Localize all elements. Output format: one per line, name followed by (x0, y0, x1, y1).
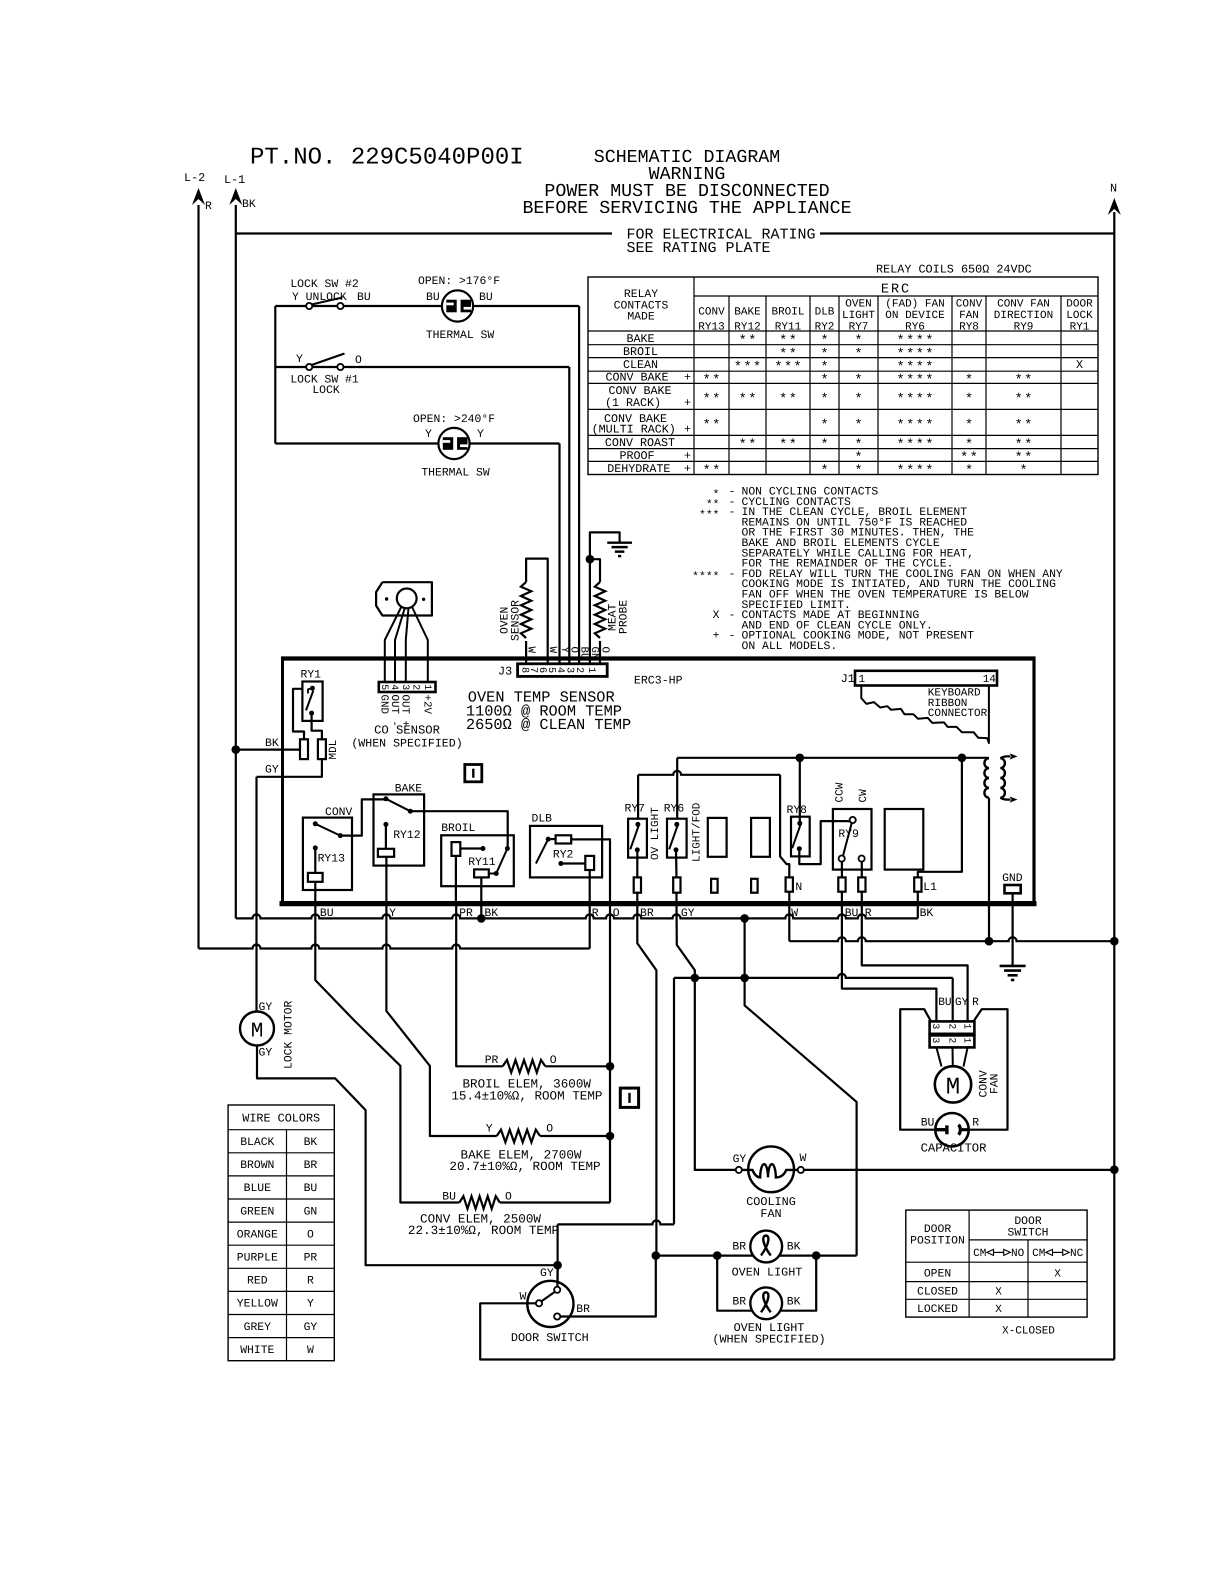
relay RY7 oven light (628, 819, 647, 858)
wire door sw GY up (556, 1265, 558, 1287)
cooling fan (748, 1146, 794, 1192)
svg-text:RY8: RY8 (787, 805, 808, 817)
svg-text:*: * (965, 464, 973, 479)
relay RY2 DLB (530, 826, 602, 878)
svg-text:DOOR: DOOR (1014, 1216, 1042, 1228)
svg-text:+: + (684, 462, 691, 476)
conv fan feed bus (674, 974, 953, 978)
svg-text:BU: BU (479, 292, 493, 304)
svg-text:*: * (906, 438, 914, 453)
svg-text:*: * (1024, 393, 1032, 408)
junction O / bake elem (606, 1132, 615, 1141)
svg-text:CAPACITOR: CAPACITOR (921, 1142, 987, 1156)
CO sensor lens (397, 589, 417, 609)
svg-text:O: O (598, 647, 610, 653)
wire line3 (W to N) (789, 937, 1114, 941)
RY9 contact BU (839, 856, 845, 862)
relay RY13 CONV (303, 818, 352, 890)
pin BK (RY1) (300, 739, 308, 759)
svg-text:2: 2 (946, 1023, 957, 1029)
svg-text:*: * (925, 419, 933, 434)
svg-text:GY: GY (265, 765, 279, 777)
junction meat probe / ground (586, 555, 595, 564)
svg-text:GY: GY (955, 997, 969, 1009)
wire O drop to J3 pin4 (568, 367, 570, 664)
svg-text:BU: BU (442, 1192, 456, 1204)
oven light 2 (750, 1287, 782, 1319)
svg-text:X: X (995, 1304, 1002, 1316)
svg-text:BROIL: BROIL (623, 345, 658, 359)
svg-text:*: * (854, 374, 862, 389)
wire BU to conv element (315, 882, 459, 1203)
svg-text:DOOR SWITCH: DOOR SWITCH (511, 1331, 589, 1345)
svg-text:BU: BU (921, 1118, 935, 1130)
transformer secondary (1000, 758, 1005, 798)
svg-text:CONV: CONV (325, 807, 353, 819)
wire GY to lock motor (255, 777, 257, 1012)
svg-text:OPEN: >176°F: OPEN: >176°F (418, 276, 500, 288)
svg-text:GN: GN (304, 1206, 318, 1218)
svg-text:OVEN: OVEN (845, 299, 871, 311)
svg-text:BAKE: BAKE (734, 307, 761, 319)
svg-text:*: * (712, 374, 720, 389)
svg-text:*: * (925, 393, 933, 408)
svg-text:GY: GY (304, 1322, 318, 1334)
svg-text:O: O (546, 1124, 553, 1136)
svg-text:LOCK: LOCK (312, 385, 340, 397)
svg-text:(1 RACK): (1 RACK) (605, 396, 661, 410)
svg-text:BROIL: BROIL (441, 823, 475, 835)
conv element resistor (459, 1196, 499, 1209)
svg-text:-: - (729, 610, 736, 622)
svg-text:BU: BU (357, 292, 371, 304)
svg-text:FAN: FAN (959, 310, 979, 322)
svg-text:*: * (906, 419, 914, 434)
svg-text:GREEN: GREEN (240, 1206, 274, 1218)
pin BR (634, 877, 641, 892)
door switch (527, 1281, 573, 1327)
svg-text:-: - (729, 507, 736, 519)
svg-text:*: * (794, 361, 802, 376)
wire lock motor to door switch GY node (257, 1046, 558, 1266)
junction branch / fan bus (740, 974, 749, 983)
svg-text:ON DEVICE: ON DEVICE (885, 310, 945, 322)
svg-text:*: * (916, 464, 924, 479)
svg-text:3: 3 (930, 1023, 941, 1029)
svg-text:OPEN: OPEN (924, 1269, 951, 1281)
junction O / broil elem (606, 1062, 615, 1071)
svg-text:X-CLOSED: X-CLOSED (1002, 1326, 1055, 1338)
svg-text:*: * (734, 361, 742, 376)
relay RY11 BROIL (441, 835, 514, 886)
wire lock sw 2 row (275, 305, 442, 307)
wire line1 (L-1 rail) (236, 914, 918, 918)
svg-text:THERMAL SW: THERMAL SW (426, 330, 495, 342)
svg-text:RY6: RY6 (905, 321, 925, 333)
svg-text:*: * (897, 464, 905, 479)
svg-text:RY12: RY12 (393, 830, 421, 842)
RY2 coil (556, 835, 572, 843)
svg-text:*: * (789, 438, 797, 453)
wire branch line1 to fan bus (745, 918, 857, 1255)
svg-text:O: O (307, 1229, 314, 1241)
svg-text:****: **** (692, 571, 719, 584)
CO sensor screw left (385, 597, 388, 600)
svg-text:*: * (906, 374, 914, 389)
svg-text:BU: BU (938, 997, 951, 1009)
junction BK / L-1 rail (477, 914, 486, 923)
wire BR to oven light (637, 904, 656, 1256)
junction lamp2 left (713, 1251, 722, 1260)
wire R pin down to line2 (589, 904, 591, 949)
svg-text:*: * (854, 347, 862, 362)
svg-text:M: M (946, 1075, 960, 1102)
svg-text:OPEN: >240°F: OPEN: >240°F (413, 414, 495, 426)
RY9 blade (843, 823, 852, 856)
svg-text:PR: PR (485, 1055, 499, 1067)
svg-text:Y: Y (296, 354, 303, 366)
pin BU (RY9) (838, 877, 845, 891)
svg-text:+: + (713, 631, 720, 643)
svg-text:*: * (916, 374, 924, 389)
wire line2 (L-2 rail to R) (199, 945, 590, 949)
svg-text:R: R (307, 1276, 314, 1288)
svg-text:DIRECTION: DIRECTION (994, 310, 1053, 322)
svg-text:W: W (307, 1345, 314, 1357)
RY2 blade (536, 839, 548, 863)
svg-text:O: O (355, 355, 362, 367)
lock switch #2 (306, 303, 312, 309)
oven light 1 (750, 1231, 782, 1263)
svg-text:ERC3-HP: ERC3-HP (634, 675, 683, 688)
broil element resistor (503, 1060, 546, 1073)
svg-text:WHITE: WHITE (240, 1345, 274, 1357)
svg-text:Y: Y (486, 1124, 493, 1136)
node lock switch rail (274, 306, 276, 444)
wire thermal sw 240 row (275, 442, 438, 444)
svg-text:Y: Y (425, 429, 432, 441)
svg-text:DLB: DLB (815, 307, 835, 319)
svg-text:X: X (713, 610, 720, 622)
svg-text:BROWN: BROWN (240, 1160, 274, 1172)
svg-text:BEFORE SERVICING THE APPLIANCE: BEFORE SERVICING THE APPLIANCE (522, 199, 851, 219)
svg-text:*: * (703, 374, 711, 389)
pin spare 2 (751, 879, 758, 893)
junction bus / RY8 (796, 754, 805, 763)
svg-text:PR: PR (304, 1253, 318, 1265)
svg-text:20.7±10%Ω, ROOM TEMP: 20.7±10%Ω, ROOM TEMP (449, 1160, 600, 1174)
svg-text:*: * (1024, 374, 1032, 389)
RY13 blade (315, 824, 340, 836)
svg-text:Y: Y (477, 429, 484, 441)
relay RY8 conv fan (791, 817, 810, 857)
svg-text:***: *** (699, 509, 720, 522)
spare relay block 1 (708, 818, 727, 857)
wire rating note to N (820, 232, 1114, 234)
svg-text:OUT +: OUT + (399, 695, 411, 727)
svg-text:*: * (916, 419, 924, 434)
svg-text:CONV: CONV (956, 299, 983, 311)
wire PR to broil element (456, 904, 503, 1067)
RY6 blade (669, 826, 677, 849)
svg-text:J3: J3 (498, 665, 512, 679)
svg-text:O: O (505, 1192, 512, 1204)
svg-text:R: R (205, 201, 212, 213)
svg-text:RY11: RY11 (775, 321, 802, 333)
svg-text:N: N (1110, 182, 1117, 196)
transformer primary (984, 758, 989, 798)
RY11 contact block (474, 869, 489, 877)
svg-text:*: * (1019, 464, 1027, 479)
svg-text:PROOF: PROOF (619, 449, 654, 463)
wire door sw W to bottom rail (480, 1303, 1114, 1359)
svg-text:L1: L1 (923, 882, 937, 894)
svg-text:RY13: RY13 (318, 854, 346, 866)
svg-text:RY11: RY11 (468, 857, 496, 869)
junction line3 / N rail (1110, 937, 1119, 946)
wire GY link door switch (558, 1220, 674, 1224)
svg-text:*: * (820, 374, 828, 389)
svg-text:BK: BK (787, 1242, 801, 1254)
RY7 blade (630, 826, 638, 849)
svg-text:2: 2 (411, 684, 422, 690)
svg-text:*: * (739, 438, 747, 453)
L-1 arrow (229, 188, 242, 205)
wire L-2 vertical rail (197, 205, 199, 949)
svg-text:3: 3 (930, 1037, 941, 1043)
svg-text:O: O (550, 1055, 557, 1067)
svg-text:*: * (1015, 374, 1023, 389)
RY11 coil (452, 842, 461, 856)
RY13 coil lead (314, 848, 316, 873)
svg-text:*: * (774, 361, 782, 376)
wire W pin down to line3 (788, 904, 790, 942)
svg-text:+2V: +2V (421, 695, 433, 715)
svg-text:NC: NC (1070, 1248, 1084, 1260)
svg-text:J1: J1 (841, 672, 855, 686)
svg-text:X: X (1054, 1269, 1061, 1281)
svg-text:*: * (897, 374, 905, 389)
connector J3 (518, 664, 608, 677)
svg-text:FAN: FAN (990, 1073, 1002, 1094)
svg-text:(FAD) FAN: (FAD) FAN (885, 299, 944, 311)
svg-text:*: * (784, 361, 792, 376)
svg-text:GY: GY (733, 1154, 747, 1166)
svg-text:+: + (684, 370, 691, 384)
svg-text:GND: GND (1002, 873, 1023, 885)
junction BR / oven light bus (652, 1251, 661, 1260)
svg-text:*: * (906, 393, 914, 408)
svg-text:1: 1 (961, 1037, 972, 1043)
oven sensor (525, 641, 527, 664)
wire BU drop to J3 pin3 (578, 306, 580, 664)
svg-text:W: W (524, 647, 536, 654)
wire GY(RY6) to cooling fan (677, 904, 736, 1170)
svg-text:RY12: RY12 (734, 321, 760, 333)
wire O from RY2 coil (571, 839, 610, 903)
svg-text:X: X (1076, 358, 1083, 372)
svg-text:CONTACTS: CONTACTS (614, 300, 669, 312)
svg-text:CONV FAN: CONV FAN (997, 299, 1050, 311)
relay RY6 light/fod (667, 819, 687, 858)
svg-text:*: * (965, 374, 973, 389)
svg-text:*: * (703, 419, 711, 434)
svg-text:*: * (925, 374, 933, 389)
svg-text:N: N (795, 882, 802, 894)
RY2 contact block (585, 856, 594, 870)
svg-text:CM: CM (1032, 1248, 1045, 1260)
pin L1 (914, 877, 921, 891)
svg-text:SENSOR: SENSOR (510, 600, 522, 641)
svg-text:LOCK: LOCK (1066, 310, 1093, 322)
svg-text:1: 1 (422, 684, 433, 690)
svg-text:SWITCH: SWITCH (1007, 1228, 1048, 1240)
svg-text:*: * (753, 361, 761, 376)
svg-text:4: 4 (389, 684, 400, 690)
svg-text:22.3±10%Ω, ROOM TEMP: 22.3±10%Ω, ROOM TEMP (408, 1224, 559, 1238)
svg-text:*: * (748, 438, 756, 453)
lock switch #1 (306, 364, 312, 370)
svg-text:MDL: MDL (328, 740, 340, 760)
svg-text:*: * (820, 438, 828, 453)
junction bus / L1 (958, 754, 967, 763)
svg-text:BU: BU (304, 1183, 318, 1195)
svg-text:BR: BR (576, 1304, 590, 1316)
svg-text:DEHYDRATE: DEHYDRATE (607, 462, 670, 476)
relay RY9 conv fan direction (833, 809, 872, 870)
thermal switch 240F (438, 428, 469, 459)
conv fan enclosure (900, 1009, 935, 1129)
svg-text:*: * (703, 464, 711, 479)
svg-text:*: * (916, 438, 924, 453)
connector J1 (855, 671, 997, 686)
wire L-1 vertical rail (235, 205, 237, 918)
wire bus to RY8 (799, 758, 801, 824)
svg-text:*: * (748, 393, 756, 408)
wire from L-1 to rating note (236, 232, 612, 234)
wire BK from L-1 to RY1 (236, 748, 300, 750)
svg-text:RY1: RY1 (1070, 321, 1090, 333)
svg-text:GND: GND (378, 695, 390, 714)
svg-text:BK: BK (787, 1297, 801, 1309)
transformer secondary leads (1000, 756, 1010, 758)
svg-text:PURPLE: PURPLE (237, 1253, 278, 1265)
wire R from RY2 (589, 870, 591, 904)
ground (ERC) (1000, 965, 1026, 968)
svg-text:PT.NO. 229C5040P00I: PT.NO. 229C5040P00I (250, 145, 524, 172)
wire RY8 to RY9 CCW contact (799, 821, 849, 864)
svg-text:*: * (916, 393, 924, 408)
svg-text:PROBE: PROBE (619, 600, 631, 634)
svg-text:*: * (965, 393, 973, 408)
wires connector to fan motor (936, 1047, 941, 1066)
svg-text:*: * (1024, 419, 1032, 434)
svg-text:ORANGE: ORANGE (237, 1229, 278, 1241)
svg-text:CONNECTOR: CONNECTOR (928, 708, 988, 720)
wire lock sw 1 row (275, 366, 569, 368)
svg-text:POSITION: POSITION (910, 1236, 965, 1248)
svg-text:+: + (684, 422, 691, 436)
meat probe (589, 559, 591, 664)
lock motor (240, 1012, 274, 1046)
pin N (W wire) (786, 877, 793, 891)
svg-text:BR: BR (732, 1297, 746, 1309)
junction cooling fan / N rail (1110, 1165, 1119, 1174)
svg-text:*: * (712, 464, 720, 479)
svg-text:LOCK MOTOR: LOCK MOTOR (284, 1000, 296, 1069)
svg-text:ERC: ERC (881, 283, 911, 298)
svg-text:BK: BK (920, 908, 934, 920)
RY11 blade (496, 849, 507, 874)
pin MDL (RY1) (318, 739, 326, 759)
wire door sw BR to oven light bus (560, 1256, 656, 1317)
svg-text:*: * (748, 334, 756, 349)
svg-text:*: * (854, 393, 862, 408)
svg-text:*: * (779, 438, 787, 453)
svg-text:*: * (820, 393, 828, 408)
marker boxed 1 (upper) (465, 765, 482, 782)
svg-text:THERMAL SW: THERMAL SW (421, 468, 490, 480)
svg-text:Y UNLOCK: Y UNLOCK (292, 292, 347, 304)
svg-text:5: 5 (379, 684, 390, 690)
svg-text:*: * (739, 393, 747, 408)
svg-text:-: - (729, 569, 736, 581)
svg-text:DOOR: DOOR (924, 1224, 952, 1236)
N arrow (1108, 198, 1121, 215)
svg-text:RELAY COILS 650Ω 24VDC: RELAY COILS 650Ω 24VDC (876, 263, 1032, 277)
svg-text:LOCKED: LOCKED (917, 1304, 958, 1316)
svg-text:WIRE COLORS: WIRE COLORS (242, 1112, 320, 1126)
wire RY13 out to RY12 in (340, 799, 386, 835)
wire RY6 to pin GY (675, 850, 678, 878)
svg-text:M: M (251, 1021, 264, 1044)
bake element resistor (497, 1130, 540, 1143)
ground (meat probe) (607, 541, 632, 543)
svg-text:1: 1 (961, 1023, 972, 1029)
svg-text:MADE: MADE (627, 312, 655, 324)
CO sensor wires (385, 607, 402, 683)
svg-text:BAKE: BAKE (395, 784, 423, 796)
wire BK/L1 pin down to line1 (917, 904, 919, 919)
svg-text:LIGHT: LIGHT (842, 310, 875, 322)
connector CO sensor (379, 682, 436, 692)
wire R to conv fan pin 1 (862, 904, 968, 1022)
svg-text:RY7: RY7 (625, 804, 646, 816)
relay RY12 BAKE (374, 794, 425, 865)
svg-text:*: * (897, 393, 905, 408)
svg-text:R: R (972, 997, 979, 1009)
svg-text:(WHEN SPECIFIED): (WHEN SPECIFIED) (351, 738, 462, 751)
svg-text:BLACK: BLACK (240, 1137, 274, 1149)
junction lamp2 right (812, 1251, 821, 1260)
svg-text:(WHEN SPECIFIED): (WHEN SPECIFIED) (712, 1333, 825, 1347)
svg-text:*: * (854, 419, 862, 434)
wire RY1 coil to BK pin (293, 689, 304, 740)
svg-text:2: 2 (573, 667, 584, 673)
capacitor (935, 1113, 968, 1146)
svg-text:*: * (925, 464, 933, 479)
svg-text:RY13: RY13 (698, 321, 724, 333)
internal bus RY7 to N pin (638, 771, 780, 775)
wire colors table (228, 1105, 334, 1361)
conv fan motor (935, 1066, 971, 1102)
svg-text:1: 1 (859, 674, 866, 686)
wire RY12 out to RY11 (410, 811, 507, 848)
svg-text:X: X (995, 1287, 1002, 1299)
svg-text:FAN: FAN (760, 1207, 781, 1221)
wire meat probe to chassis ground (590, 532, 620, 559)
svg-text:DOOR: DOOR (1066, 299, 1093, 311)
